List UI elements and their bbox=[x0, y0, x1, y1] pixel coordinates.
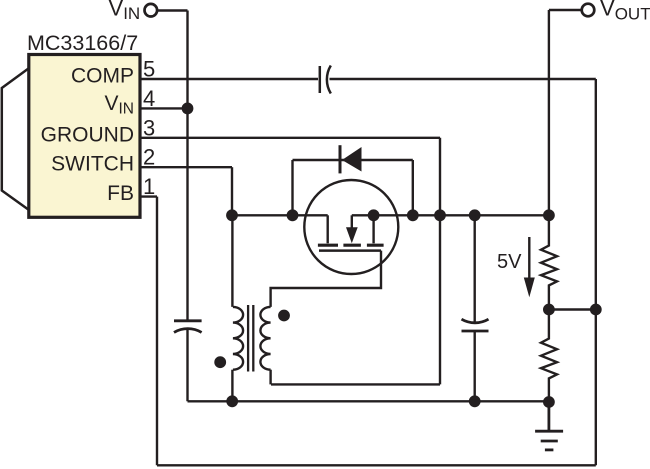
transistor Q1 gate bar bbox=[319, 249, 381, 252]
diode D1 top wire bbox=[293, 159, 413, 161]
svg-text:VOUT: VOUT bbox=[600, 0, 650, 23]
node rail dot diode left bbox=[287, 209, 299, 221]
transformer T1 primary feed bottom bbox=[231, 370, 233, 402]
svg-text:3: 3 bbox=[143, 115, 155, 140]
node rail dot mosfet right stub bbox=[368, 209, 380, 221]
transformer T1 secondary winding bbox=[260, 307, 270, 370]
transistor Q1 body arrow bbox=[346, 215, 358, 243]
transformer T1 secondary polarity dot bbox=[278, 310, 290, 322]
wire C1 to right vertical bbox=[330, 78, 596, 80]
diode D1 right leg bbox=[412, 160, 414, 215]
wire C2 to bottom rail bbox=[186, 330, 188, 401]
wire gate to secondary top bbox=[271, 251, 381, 307]
IC U1 MC33166/7 package tab bbox=[2, 68, 29, 210]
wire divider stub bbox=[549, 308, 596, 310]
svg-text:5V: 5V bbox=[497, 251, 522, 273]
wire GROUND vertical down bbox=[439, 138, 441, 385]
transformer T1 core bbox=[248, 305, 253, 372]
svg-text:FB: FB bbox=[107, 182, 134, 205]
svg-text:2: 2 bbox=[143, 145, 155, 170]
svg-text:5: 5 bbox=[143, 57, 155, 82]
node rail dot ground cross bbox=[434, 209, 446, 221]
wire rail left segment bbox=[232, 214, 328, 216]
wire C3 bottom bbox=[474, 331, 476, 401]
terminal VIN bbox=[145, 4, 158, 17]
svg-text:GROUND: GROUND bbox=[41, 123, 134, 146]
diode D1 triangle bbox=[342, 147, 362, 172]
transistor Q1 MOSFET circle bbox=[304, 180, 398, 274]
wire VOUT vertical bbox=[548, 10, 550, 215]
transistor Q1 left stub bbox=[327, 215, 329, 243]
svg-text:COMP: COMP bbox=[71, 65, 134, 88]
node rail dot SWITCH bbox=[226, 209, 238, 221]
wire FB stub to pin1 bbox=[140, 195, 157, 197]
transformer T1 primary winding bbox=[233, 307, 243, 370]
svg-text:1: 1 bbox=[143, 174, 155, 199]
terminal VOUT bbox=[582, 4, 595, 17]
transformer T1 primary polarity dot bbox=[214, 356, 226, 368]
svg-text:4: 4 bbox=[143, 86, 155, 111]
wire VIN vertical down to C2 bbox=[186, 11, 188, 321]
ground bbox=[535, 402, 563, 450]
wire VIN terminal to vertical bbox=[157, 9, 188, 11]
diode D1 cathode bar bbox=[339, 145, 342, 173]
wire pin5 COMP to C1 bbox=[140, 78, 318, 80]
node rail dot VOUT bbox=[543, 209, 555, 221]
capacitor C2 bbox=[174, 321, 202, 333]
wire pin3 GROUND horizontal bbox=[140, 137, 440, 139]
wire right vertical COMP/FB bbox=[595, 79, 597, 465]
wire VOUT terminal left bbox=[549, 9, 582, 11]
wire SWITCH down to rail bbox=[231, 167, 233, 215]
wire bottom rail bbox=[188, 400, 549, 402]
wire FB bottom run bbox=[157, 464, 596, 466]
resistor R2 bbox=[541, 310, 557, 403]
wire pin2 SWITCH horizontal bbox=[140, 166, 232, 168]
node bottom rail dot ground bbox=[543, 396, 555, 408]
wire FB left vertical bbox=[156, 197, 158, 466]
diode D1 left leg bbox=[291, 160, 293, 215]
node divider stub dot bbox=[590, 304, 602, 316]
wire rail right segment bbox=[352, 214, 549, 216]
svg-text:MC33166/7: MC33166/7 bbox=[27, 31, 138, 55]
wire C3 top bbox=[474, 215, 476, 321]
transformer T1 primary feed top bbox=[231, 215, 233, 307]
svg-text:SWITCH: SWITCH bbox=[51, 153, 134, 176]
IC U1 MC33166/7 body bbox=[29, 55, 140, 218]
node bottom rail dot C3 bbox=[469, 395, 481, 407]
node bottom rail dot primary bbox=[226, 395, 238, 407]
wire secondary bottom feed bbox=[269, 370, 271, 385]
wire secondary bottom horizontal bbox=[271, 383, 440, 385]
transistor Q1 channel bars bbox=[318, 244, 384, 247]
5V arrow bbox=[524, 237, 535, 297]
node pin4 junction dot bbox=[182, 103, 194, 115]
node rail dot diode right bbox=[407, 209, 419, 221]
capacitor C1 bbox=[320, 66, 331, 94]
node rail dot C3 bbox=[469, 209, 481, 221]
capacitor C3 bbox=[462, 319, 489, 331]
resistor R1 bbox=[541, 215, 557, 309]
svg-text:VIN: VIN bbox=[109, 0, 141, 23]
wire pin4 stub bbox=[140, 107, 188, 109]
node divider dot bbox=[543, 304, 555, 316]
transistor Q1 right stub bbox=[372, 215, 374, 243]
